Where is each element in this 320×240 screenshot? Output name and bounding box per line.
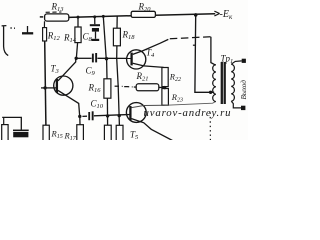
svg-text:R13: R13	[51, 2, 65, 14]
transistor T5	[126, 103, 172, 141]
wire2 emitter follower line	[82, 115, 130, 117]
svg-text:R15: R15	[51, 129, 63, 141]
wire R21 left dash-dot	[115, 85, 137, 88]
wire R18 bottom to bias chain	[117, 46, 120, 126]
node transformer tap	[209, 91, 212, 94]
svg-text:T3: T3	[51, 64, 60, 76]
svg-text:C10: C10	[91, 99, 104, 111]
node C8 top	[93, 15, 96, 18]
capacitor C8 (electrolytic to ground)	[90, 17, 100, 41]
ground	[22, 26, 33, 33]
wire emitter to R17	[79, 116, 81, 124]
wire R21 right lead	[159, 86, 164, 88]
svg-text:T5: T5	[130, 130, 139, 141]
capacitor C10	[88, 111, 93, 120]
resistor R14	[75, 17, 81, 58]
resistor R11 (cropped, bottom left)	[2, 117, 8, 141]
resistor R16	[104, 79, 111, 98]
svg-text:R21: R21	[136, 71, 149, 83]
wire tick on supply vertical	[193, 44, 196, 46]
node T3 emitter junction	[78, 115, 81, 118]
wire supply rail to transformer tap	[195, 15, 214, 92]
node R22-R23 junction	[163, 86, 166, 89]
wire R23 to primary bottom	[164, 102, 216, 106]
svg-text:R12: R12	[47, 31, 61, 43]
node wire1 junction	[105, 57, 108, 60]
wire secondary bottom lead	[231, 101, 241, 108]
resistor bias (cropped)	[116, 125, 123, 141]
transistor T3	[54, 58, 80, 116]
resistor R21	[136, 84, 159, 91]
node supply junction	[194, 13, 198, 17]
resistor R22	[162, 68, 168, 87]
terminal -Ek arrow	[214, 11, 219, 16]
wire dash-dot remnant	[10, 27, 15, 29]
resistor R20	[131, 11, 155, 17]
svg-text:R16: R16	[88, 83, 102, 95]
transistor T4	[127, 39, 169, 69]
transformer core	[222, 62, 225, 104]
resistor R17	[77, 125, 84, 141]
terminal output top	[242, 59, 246, 63]
wire cropped input curl	[2, 26, 9, 56]
resistor R23	[162, 89, 169, 106]
node bus decoupling	[102, 15, 105, 18]
resistor R15	[43, 125, 49, 141]
svg-text:C8: C8	[83, 32, 93, 44]
svg-text:R18: R18	[122, 30, 136, 42]
svg-text:R20: R20	[138, 2, 152, 14]
node wire2 junction a	[106, 114, 109, 117]
resistor R18	[113, 16, 120, 46]
svg-text:R22: R22	[169, 72, 181, 84]
capacitor C9	[92, 53, 97, 62]
node wire2 junction b	[118, 114, 121, 117]
wire transformer primary top feed	[211, 37, 216, 65]
wire R16 bottom lead	[106, 98, 108, 125]
svg-text:T4: T4	[146, 48, 155, 60]
transformer Tp1 secondary winding	[231, 64, 234, 101]
wire secondary top lead	[231, 61, 242, 64]
svg-text:R17: R17	[64, 131, 77, 141]
resistor R12	[43, 21, 47, 41]
capacitor C7 (electrolytic, cropped)	[13, 130, 29, 137]
wire T4 collector dashed to transformer	[170, 37, 211, 39]
terminal output bottom	[241, 106, 245, 110]
wire T3 base	[41, 87, 57, 89]
wire top supply bus right segment	[155, 14, 215, 16]
wire dashed chassis line bottom right	[209, 113, 211, 141]
svg-text:uvarov-andrey.ru: uvarov-andrey.ru	[144, 107, 232, 119]
transformer Tp1 primary winding	[213, 65, 216, 102]
resistor R13	[40, 12, 69, 21]
node T3 base junction	[43, 86, 46, 89]
resistor R19 (cropped)	[104, 125, 111, 141]
svg-text:C9: C9	[86, 66, 96, 78]
svg-text:Выход: Выход	[240, 80, 248, 100]
node R14 top	[77, 16, 80, 19]
wire base-bias vertical (R12 to R15 through T3 base)	[45, 41, 46, 125]
wire1 T3 collector to T4 base	[76, 57, 131, 59]
svg-text:R23: R23	[171, 92, 183, 104]
wire R16 top lead	[106, 59, 108, 79]
wire top supply bus left segment	[69, 16, 132, 18]
wire to C7	[2, 117, 21, 129]
wire decoupling vertical (bus to R16)	[103, 16, 106, 58]
svg-text:-Eк: -Eк	[220, 9, 233, 21]
node R14 bottom junction	[75, 57, 78, 60]
